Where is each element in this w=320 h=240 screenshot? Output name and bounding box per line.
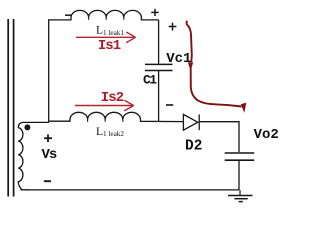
red current arrow Is1 bbox=[76, 32, 136, 43]
svg-text:L1 leak1: L1 leak1 bbox=[96, 25, 124, 37]
transformer secondary winding Vs bbox=[18, 122, 49, 189]
svg-text:Vc1: Vc1 bbox=[166, 51, 191, 67]
transformer core line 1 bbox=[7, 19, 9, 197]
wire: below Vo2 cap to bottom rail bbox=[238, 161, 240, 190]
coil2 cusp ticks bbox=[88, 120, 123, 122]
plus sign near Vs bbox=[44, 134, 52, 142]
wire: below C1 down to middle rail bbox=[158, 71, 160, 121]
wire: bottom rail bbox=[21, 189, 240, 191]
svg-text:Vo2: Vo2 bbox=[254, 127, 279, 143]
wire: right vertical down to C1 bbox=[158, 20, 160, 64]
wire: top lead + inductor L1leak1 + lead to top-right corner bbox=[48, 10, 159, 19]
freehand maroon annotation curve with arrowheads bbox=[187, 21, 192, 62]
wire: middle rail left segment + inductor L1leak2 bbox=[49, 112, 184, 121]
red current arrow Is2 bbox=[75, 100, 134, 111]
wire: diode to output corner bbox=[199, 122, 239, 152]
maroon curve lower segment bbox=[191, 68, 242, 107]
coil1 cusp ticks bbox=[89, 17, 124, 19]
capacitor Vo2 bottom plate bbox=[225, 159, 255, 161]
svg-text:L1 leak2: L1 leak2 bbox=[96, 126, 124, 138]
svg-text:Is1: Is1 bbox=[98, 38, 121, 54]
diode D2 bbox=[183, 114, 197, 130]
svg-text:Vs: Vs bbox=[42, 147, 57, 163]
plus sign right of L1leak1 bbox=[151, 9, 158, 16]
polarity dot bbox=[24, 124, 30, 130]
minus sign left of L1leak1 bbox=[65, 14, 71, 16]
transformer core line 2 bbox=[13, 19, 15, 197]
minus sign below C1 bbox=[166, 104, 173, 106]
capacitor C1 bottom plate bbox=[145, 70, 173, 72]
maroon end arrowhead bbox=[241, 103, 247, 113]
capacitor Vo2 top plate bbox=[225, 152, 255, 154]
capacitor C1 top plate bbox=[145, 63, 173, 65]
minus sign near Vs bottom bbox=[44, 180, 51, 182]
svg-text:Is2: Is2 bbox=[101, 90, 124, 106]
wire: top-left vertical branch bbox=[48, 20, 50, 122]
plus sign top of Vc branch bbox=[169, 23, 177, 31]
ground bbox=[228, 190, 253, 202]
svg-text:D2: D2 bbox=[185, 139, 202, 155]
svg-text:C1: C1 bbox=[143, 72, 157, 87]
maroon mid arrowhead (down) bbox=[188, 62, 193, 71]
